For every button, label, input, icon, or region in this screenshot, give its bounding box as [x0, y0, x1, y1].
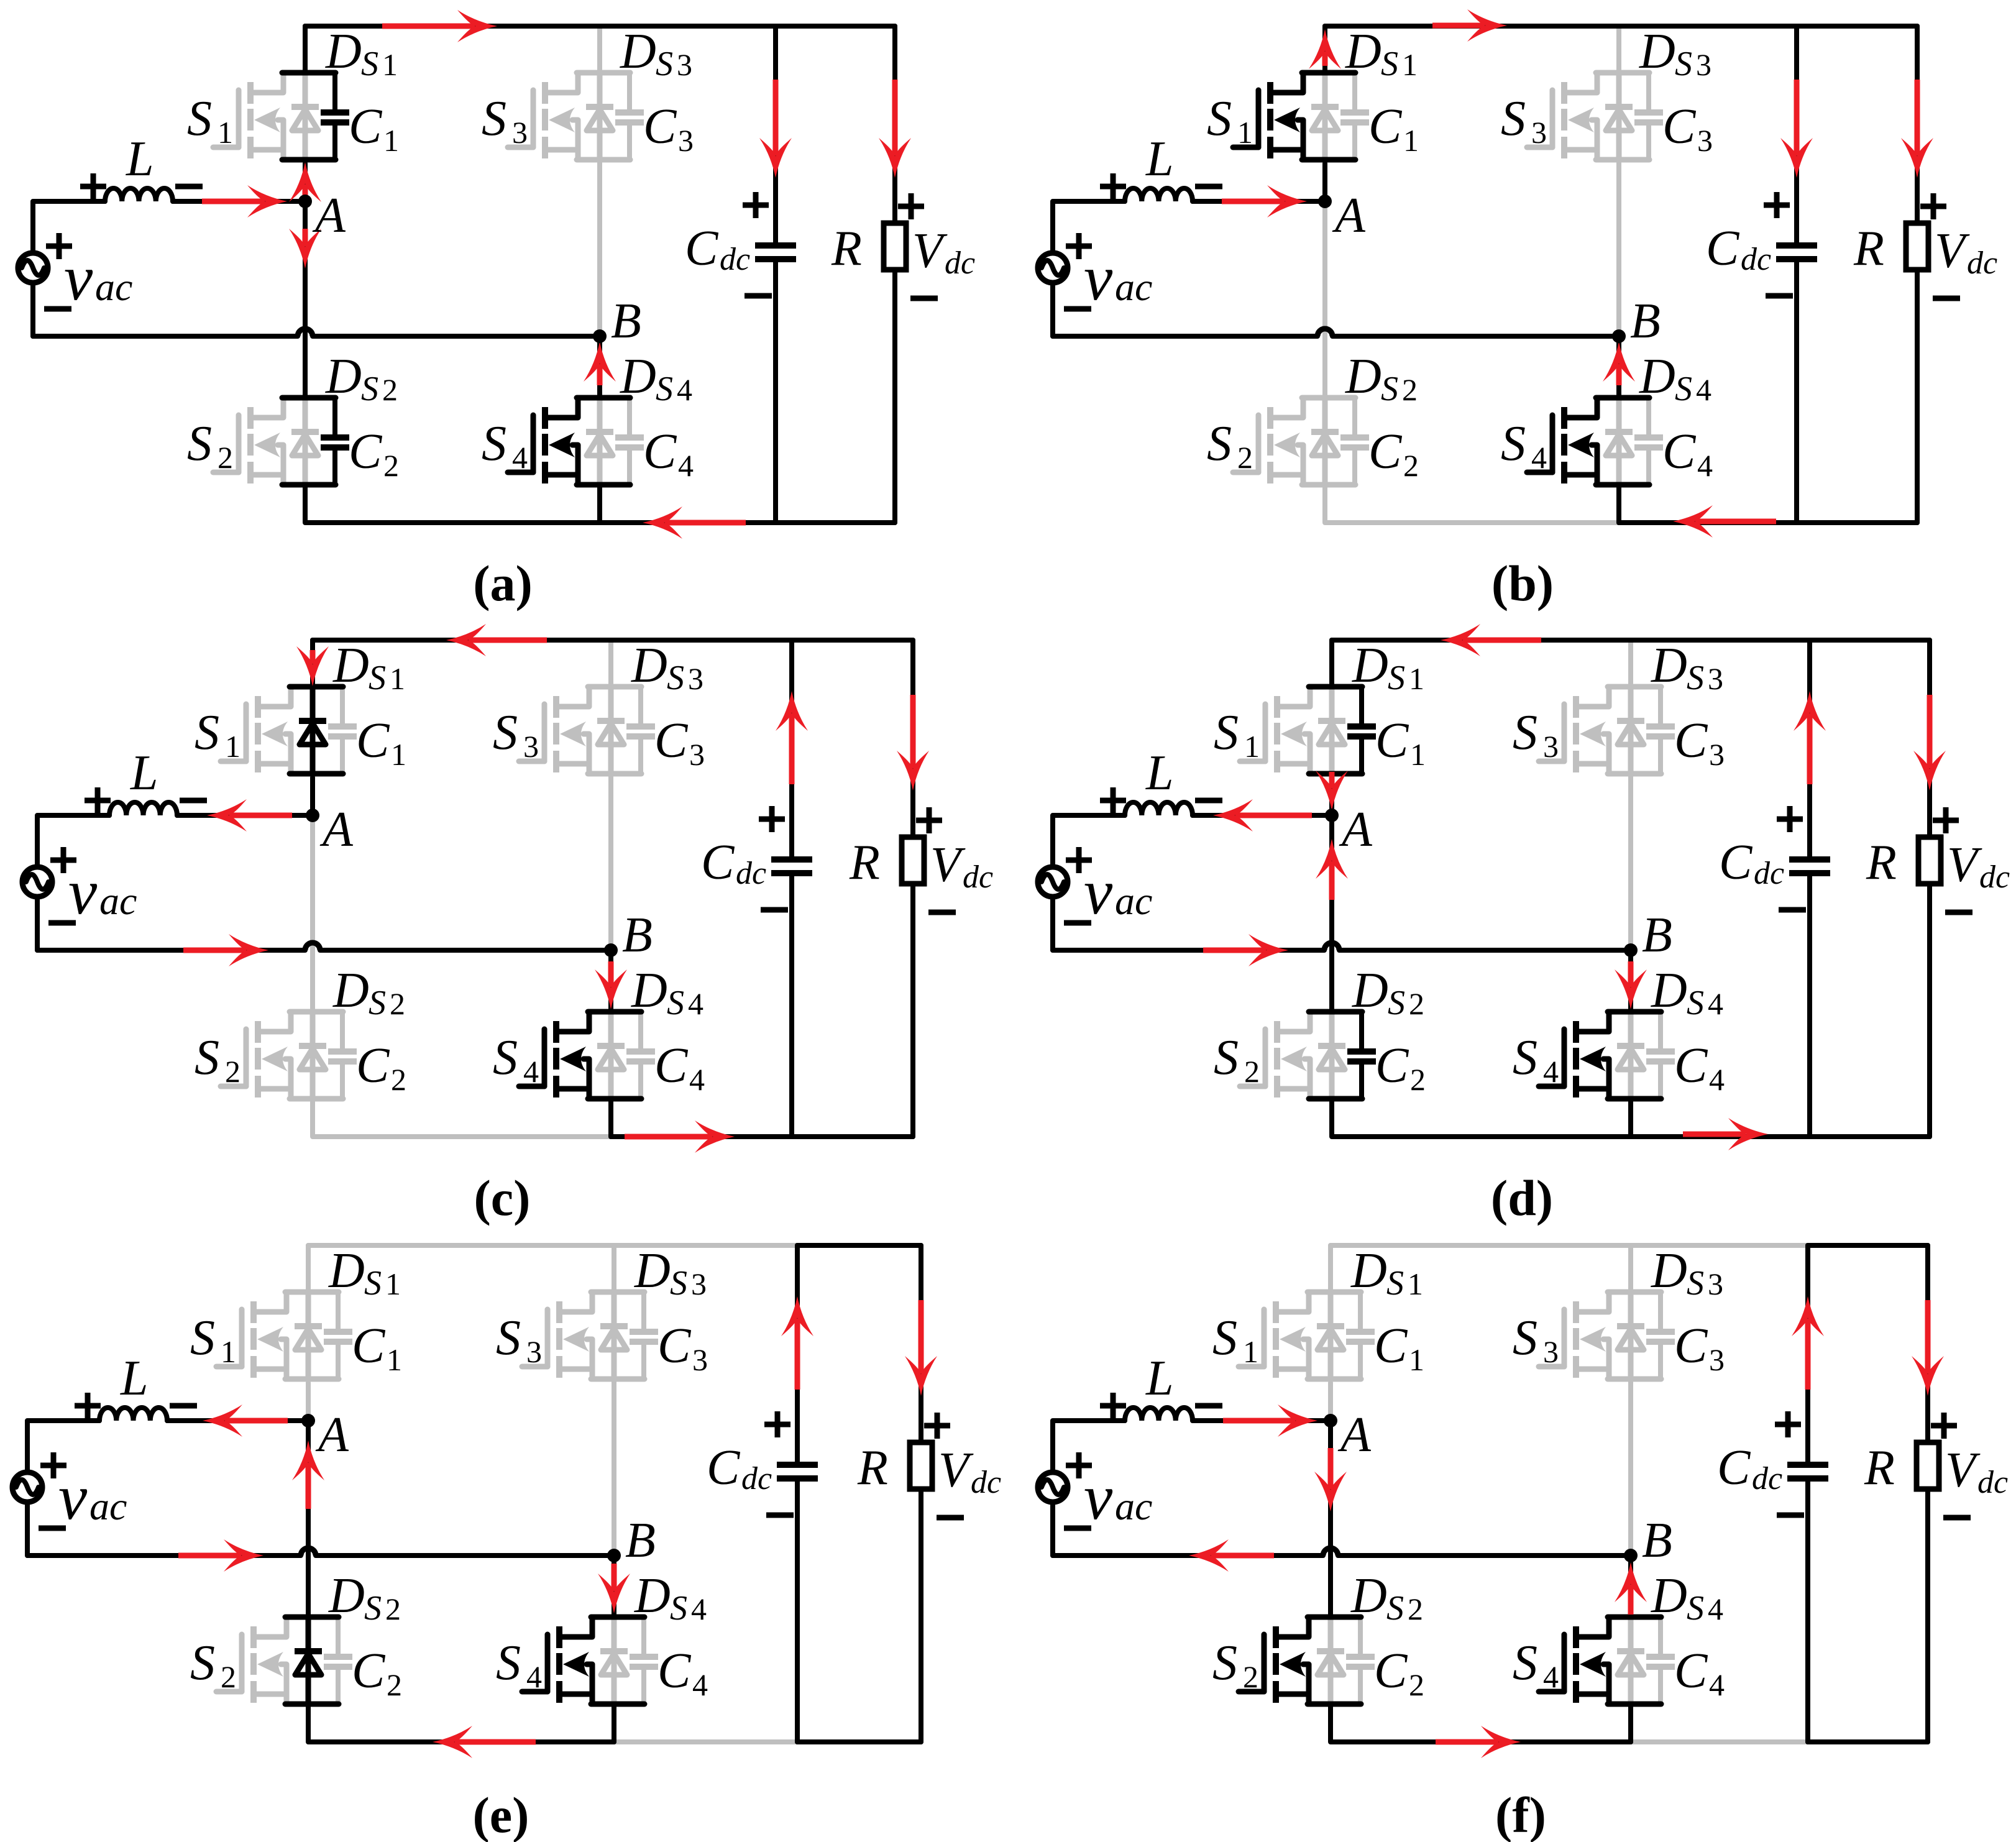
wire (c): bottom rail from S4 to C_dc tap — [611, 1134, 792, 1139]
wire (f): top rail from S1 corner to C_dc tap — [1331, 1245, 1808, 1292]
capacitor C3 (e) — [641, 1292, 646, 1329]
label - at v_ac (f) — [1064, 1526, 1091, 1531]
svg-text:1: 1 — [1243, 1334, 1258, 1369]
svg-text:3: 3 — [1709, 737, 1725, 772]
svg-text:v: v — [1084, 1462, 1113, 1533]
svg-text:S: S — [656, 45, 673, 83]
inductor L (d) — [1125, 802, 1193, 815]
label - at inductor (a) — [175, 184, 203, 190]
wire (b): top rail from C_dc tap to load corner — [1797, 24, 1917, 29]
inductor L (f) — [1125, 1408, 1193, 1421]
transistor S2 (f) top/bottom connection bars — [1308, 1615, 1361, 1620]
ac source v_ac (e) — [12, 1472, 42, 1502]
svg-text:4: 4 — [526, 1659, 542, 1694]
svg-text:4: 4 — [689, 1062, 705, 1097]
svg-text:3: 3 — [689, 737, 705, 772]
svg-text:S: S — [1388, 659, 1405, 697]
svg-text:ac: ac — [89, 1484, 127, 1528]
current arrow (d): through inductor toward source — [1235, 813, 1312, 818]
transistor S3 (b) MOSFET symbol — [1550, 90, 1556, 147]
capacitor C3 (b) — [1646, 73, 1651, 110]
svg-text:S: S — [1386, 1589, 1404, 1628]
svg-text:R: R — [1853, 221, 1884, 276]
svg-text:S: S — [667, 659, 684, 697]
svg-text:1: 1 — [218, 115, 233, 150]
wire (f): source bottom to crossover — [1050, 1502, 1055, 1556]
transistor S3 (c) MOSFET symbol — [542, 704, 548, 761]
transistor S2 (c) MOSFET symbol — [244, 1029, 249, 1086]
svg-text:dc: dc — [1754, 856, 1784, 891]
current arrow (f): up through D_S4 into node B — [1628, 1585, 1634, 1615]
label - at C_dc (b) — [1766, 293, 1793, 299]
current arrow (b): up through D_S4 into node B — [1616, 364, 1622, 385]
label - at v_ac (e) — [39, 1526, 66, 1531]
current arrow (d): down from node B into S4 — [1628, 961, 1634, 987]
svg-text:4: 4 — [692, 1667, 708, 1702]
label - at C_dc (d) — [1779, 907, 1806, 913]
wire (c): node A down to S2 — [310, 815, 315, 1012]
body diode D_S1 (c) — [310, 687, 316, 774]
svg-text:D: D — [1345, 24, 1381, 79]
capacitor C4 (d) — [1658, 1012, 1663, 1049]
svg-text:A: A — [1337, 1408, 1372, 1462]
svg-text:D: D — [1350, 1244, 1387, 1298]
svg-text:1: 1 — [390, 661, 405, 696]
label + at v_ac (e) — [40, 1463, 66, 1469]
capacitor C2 (e) — [336, 1617, 341, 1654]
svg-text:4: 4 — [1543, 1659, 1559, 1694]
capacitor C2 (d) — [1359, 1012, 1364, 1049]
svg-text:R: R — [1866, 835, 1897, 890]
body diode D_S3 (b) — [1616, 73, 1622, 160]
body diode D_S1 (b) — [1322, 73, 1328, 160]
wire (c): S4 source to bottom rail — [608, 1099, 613, 1137]
svg-text:1: 1 — [1402, 47, 1418, 82]
svg-text:D: D — [620, 24, 656, 79]
svg-text:D: D — [631, 963, 667, 1018]
transistor S1 (f) MOSFET symbol — [1262, 1309, 1267, 1367]
svg-text:D: D — [620, 349, 656, 404]
current arrow (f): inductor output, to the right — [1223, 1418, 1295, 1424]
label + at V_dc (c) — [916, 818, 942, 823]
wire (d): source bottom to crossover — [1050, 897, 1055, 950]
label - at v_ac (d) — [1064, 920, 1091, 926]
capacitor C3 (f) — [1658, 1292, 1663, 1329]
transistor S1 (c) MOSFET symbol — [244, 704, 249, 761]
current arrow (a): down into C_dc — [773, 80, 779, 155]
svg-text:1: 1 — [1237, 115, 1253, 150]
svg-text:(e): (e) — [472, 1787, 529, 1842]
svg-text:ac: ac — [1115, 1484, 1152, 1528]
svg-text:S: S — [1675, 45, 1692, 83]
svg-text:dc: dc — [1967, 245, 1997, 281]
wire (b): source bottom to crossover — [1050, 283, 1055, 336]
wire (c): inductor to node A — [177, 813, 313, 818]
svg-text:C: C — [657, 1319, 692, 1373]
inductor L (b) — [1125, 188, 1193, 201]
wire (c): source bottom to crossover — [35, 897, 40, 950]
svg-text:D: D — [325, 349, 362, 404]
wire (e): S3 drain wire (top rail to S3), inactive — [612, 1245, 616, 1292]
svg-text:D: D — [634, 1569, 671, 1623]
wire (e): node B up to S4 drain — [612, 1556, 616, 1617]
wire (e): source bottom to crossover — [25, 1502, 30, 1556]
svg-text:S: S — [493, 1030, 518, 1085]
svg-text:V: V — [1935, 224, 1970, 278]
label + at v_ac (a) — [46, 244, 72, 249]
label - at V_dc (c) — [928, 910, 956, 915]
wire (a): S3 drain wire (top rail to S3), inactive — [597, 26, 602, 73]
svg-text:1: 1 — [1409, 1342, 1424, 1377]
label + at V_dc (f) — [1931, 1423, 1957, 1429]
svg-text:V: V — [938, 1443, 974, 1498]
node B (b) — [1612, 329, 1626, 343]
svg-text:C: C — [643, 424, 677, 479]
svg-text:2: 2 — [1403, 448, 1419, 483]
wire (c): S3 drain wire (top rail to S3), inactive — [608, 640, 613, 687]
body diode D_S1 (a) — [303, 73, 308, 160]
svg-text:S: S — [1212, 1636, 1237, 1690]
transistor S4 (f) top/bottom connection bars — [1608, 1615, 1661, 1620]
svg-text:1: 1 — [385, 1267, 401, 1301]
svg-text:3: 3 — [1543, 729, 1559, 764]
current arrow (c): top rail, to the left — [469, 638, 547, 643]
svg-text:4: 4 — [691, 1592, 707, 1626]
current arrow (b): down through R — [1915, 80, 1920, 155]
wire (f): node A to S1 — [1328, 1383, 1333, 1421]
wire (b): source to inductor — [1053, 201, 1125, 253]
svg-text:3: 3 — [1697, 123, 1713, 158]
label + at V_dc (e) — [924, 1423, 950, 1429]
svg-text:V: V — [1947, 838, 1982, 892]
svg-text:S: S — [1675, 370, 1692, 408]
wire (c): top rail — [313, 638, 792, 643]
svg-text:3: 3 — [692, 1342, 708, 1377]
transistor S4 (f) MOSFET symbol — [1562, 1634, 1567, 1692]
wire (a): source to inductor — [33, 201, 105, 253]
svg-text:4: 4 — [678, 448, 694, 483]
current arrow (d): bottom rail, to the right — [1683, 1132, 1746, 1137]
label + at inductor (f) — [1100, 1403, 1126, 1409]
current arrow (d): up toward node A — [1329, 861, 1335, 900]
wire (a): bottom rail from S4 to C_dc tap — [600, 520, 776, 525]
svg-text:1: 1 — [1410, 737, 1426, 772]
label + at inductor (d) — [1100, 798, 1126, 804]
svg-text:v: v — [58, 1462, 88, 1533]
label + at v_ac (c) — [50, 858, 76, 863]
transistor S3 (d) top/bottom connection bars — [1608, 684, 1661, 690]
label - at V_dc (a) — [910, 296, 938, 301]
wire (f): S1 drain to top rail — [1328, 1245, 1333, 1292]
current arrow (a): down through R — [892, 80, 898, 155]
ac source v_ac (b) — [1038, 253, 1068, 283]
svg-text:D: D — [1345, 349, 1381, 404]
svg-text:2: 2 — [391, 1062, 406, 1097]
capacitor C_dc (b) — [1794, 26, 1799, 243]
svg-text:C: C — [1662, 424, 1697, 479]
wire (e): source to inductor — [27, 1421, 99, 1472]
svg-text:2: 2 — [218, 440, 233, 475]
ac source v_ac (d) — [1038, 867, 1068, 897]
svg-text:D: D — [1651, 1244, 1687, 1298]
wire (f): node A down to S2 — [1328, 1421, 1333, 1617]
body diode D_S1 (e) — [306, 1292, 311, 1379]
wire (f): S3 drain wire (top rail to S3), inactive — [1628, 1245, 1633, 1292]
current arrow (c): down through R — [910, 695, 916, 768]
wire (f): S3 source to node B, inactive — [1628, 1379, 1633, 1556]
svg-text:C: C — [1375, 713, 1409, 768]
wire (b): top rail — [1325, 24, 1797, 29]
current arrow (e): down from node B into S4 — [612, 1564, 617, 1591]
label + at inductor (c) — [85, 798, 111, 804]
body diode D_S2 (f) — [1328, 1617, 1334, 1704]
svg-text:dc: dc — [1752, 1461, 1782, 1496]
body diode D_S2 (a) — [303, 398, 308, 485]
svg-text:3: 3 — [512, 115, 528, 150]
body diode D_S2 (b) — [1322, 398, 1328, 485]
label + at V_dc (d) — [1933, 818, 1959, 823]
wire (e): top rail from C_dc tap to load corner — [797, 1243, 921, 1248]
wire (d): node B up to S4 drain — [1628, 950, 1633, 1012]
svg-text:4: 4 — [1697, 448, 1713, 483]
wire (a): node A down to S2 — [303, 201, 308, 398]
current arrow (b): up through S1 to top rail — [1322, 52, 1328, 66]
svg-text:B: B — [622, 908, 653, 963]
svg-text:dc: dc — [1977, 1465, 2008, 1500]
current arrow (b): top rail, to the right — [1432, 23, 1485, 29]
svg-text:S: S — [187, 416, 212, 471]
wire (e): inductor to node A — [167, 1418, 308, 1423]
capacitor C3 (c) — [638, 687, 643, 724]
transistor S2 (a) top/bottom connection bars — [282, 395, 336, 401]
svg-text:2: 2 — [390, 986, 405, 1021]
svg-text:3: 3 — [523, 729, 539, 764]
node B (c) — [604, 943, 618, 957]
body diode D_S1 (d) — [1329, 687, 1335, 774]
body diode D_S4 (b) — [1616, 398, 1622, 485]
label - at v_ac (b) — [1064, 306, 1091, 312]
label - at V_dc (d) — [1945, 910, 1972, 915]
transistor S4 (d) MOSFET symbol — [1562, 1029, 1567, 1086]
svg-text:C: C — [1674, 713, 1708, 768]
svg-text:S: S — [1687, 659, 1704, 697]
capacitor C1 (c) — [340, 687, 345, 724]
svg-text:D: D — [1352, 638, 1388, 693]
svg-text:C: C — [1375, 1038, 1409, 1093]
crossover hop (d) on source-return wire over phase-leg A — [1324, 943, 1339, 950]
current arrow (e): up toward node A — [306, 1463, 311, 1509]
resistor R / output V_dc branch (c) — [910, 640, 915, 840]
svg-text:S: S — [1513, 1030, 1537, 1085]
wire (d): S1 drain to top rail corner — [1329, 640, 1334, 687]
svg-text:D: D — [1651, 963, 1687, 1018]
svg-text:C: C — [657, 1644, 692, 1698]
svg-text:dc: dc — [1741, 242, 1771, 277]
svg-text:1: 1 — [383, 123, 399, 158]
inductor L (e) — [99, 1408, 167, 1421]
label + at C_dc (d) — [1777, 817, 1803, 822]
svg-text:2: 2 — [1409, 1667, 1424, 1702]
svg-text:L: L — [1145, 132, 1174, 186]
current arrow (b): down into C_dc — [1794, 80, 1800, 155]
transistor S1 (e) top/bottom connection bars — [285, 1290, 339, 1295]
svg-text:C: C — [352, 1644, 386, 1698]
svg-text:B: B — [625, 1513, 656, 1568]
svg-text:3: 3 — [526, 1334, 542, 1369]
capacitor C3 (d) — [1658, 687, 1663, 724]
wire (a): bottom rail from C_dc tap to load — [776, 520, 895, 525]
body diode D_S2 (d) — [1329, 1012, 1335, 1099]
svg-text:S: S — [361, 370, 378, 408]
svg-text:v: v — [1084, 242, 1113, 314]
wire (b): bottom rail from C_dc tap to load — [1797, 520, 1917, 525]
svg-text:(b): (b) — [1491, 555, 1554, 612]
svg-text:S: S — [1381, 45, 1398, 83]
svg-text:dc: dc — [741, 1461, 772, 1496]
transistor S3 (b) top/bottom connection bars — [1596, 70, 1649, 76]
resistor R / output V_dc branch (b) — [1915, 26, 1920, 226]
wire (d): S3 source to node B, inactive — [1628, 774, 1633, 950]
svg-text:D: D — [1639, 24, 1675, 79]
svg-text:ac: ac — [1115, 879, 1152, 923]
wire (b): node B up to S4 drain — [1616, 336, 1621, 398]
transistor S1 (c) top/bottom connection bars — [290, 684, 343, 690]
node A (d) — [1325, 809, 1339, 822]
label - at v_ac (c) — [48, 920, 76, 926]
svg-text:(c): (c) — [474, 1170, 530, 1226]
svg-text:A: A — [1339, 802, 1373, 857]
wire (a): inductor to node A — [173, 199, 305, 204]
node A (c) — [306, 809, 319, 822]
node B (a) — [593, 329, 607, 343]
crossover hop (c) on source-return wire over phase-leg A — [305, 943, 320, 950]
svg-text:S: S — [364, 1589, 382, 1628]
wire (d): bottom rail from S4 to C_dc tap — [1631, 1134, 1810, 1139]
current arrow (f): down from node A toward S2 — [1328, 1448, 1334, 1489]
svg-text:D: D — [1352, 963, 1388, 1018]
wire (d): S4 source to bottom rail — [1628, 1099, 1633, 1137]
current arrow (d): down through R — [1927, 695, 1933, 768]
svg-text:S: S — [361, 45, 378, 83]
crossover hop (b) on source-return wire over phase-leg A — [1317, 329, 1332, 336]
svg-text:D: D — [332, 638, 369, 693]
current arrow (e): through inductor toward source — [225, 1418, 288, 1424]
svg-text:C: C — [356, 713, 390, 768]
current arrow (d): up out of C_dc — [1807, 713, 1813, 784]
svg-text:2: 2 — [1237, 440, 1253, 475]
current arrow (c): up out of C_dc — [789, 713, 795, 784]
wire (e): bottom rail from C_dc tap to load — [797, 1739, 921, 1744]
svg-text:C: C — [1706, 221, 1740, 276]
svg-text:3: 3 — [691, 1267, 707, 1301]
capacitor C2 (f) — [1358, 1617, 1363, 1654]
capacitor C_dc (e) — [795, 1245, 800, 1462]
transistor S3 (a) MOSFET symbol — [531, 90, 536, 147]
svg-text:C: C — [1674, 1038, 1708, 1093]
svg-text:V: V — [912, 224, 948, 278]
svg-text:R: R — [857, 1441, 888, 1495]
label + at inductor (e) — [75, 1403, 101, 1409]
svg-text:D: D — [634, 1244, 671, 1298]
svg-text:C: C — [685, 221, 719, 276]
transistor S3 (e) MOSFET symbol — [545, 1309, 551, 1367]
body diode D_S3 (d) — [1628, 687, 1634, 774]
svg-text:S: S — [482, 416, 506, 471]
wire (b): node A up to S1 — [1322, 163, 1327, 201]
wire (f): S2 source to bottom rail and across to S4 — [1331, 1704, 1631, 1742]
svg-text:C: C — [654, 713, 689, 768]
svg-text:S: S — [1513, 1636, 1537, 1690]
capacitor C3 (a) — [627, 73, 632, 110]
ac source v_ac (a) — [18, 253, 48, 283]
current arrow (e): up out of C_dc — [795, 1319, 800, 1390]
label + at inductor (a) — [80, 184, 106, 190]
current arrow (b): inductor output, to the right — [1222, 199, 1285, 204]
svg-text:1: 1 — [221, 1334, 236, 1369]
resistor R / output V_dc branch (f) — [1925, 1245, 1930, 1445]
transistor S1 (d) MOSFET symbol — [1263, 704, 1268, 761]
wire (f): crossover to node B — [1338, 1553, 1631, 1558]
transistor S2 (b) MOSFET symbol — [1256, 415, 1262, 472]
label + at v_ac (d) — [1066, 858, 1092, 863]
svg-text:2: 2 — [1410, 1062, 1426, 1097]
svg-text:D: D — [325, 24, 362, 79]
wire (a): S3 source to node B, inactive — [597, 160, 602, 336]
transistor S2 (c) top/bottom connection bars — [290, 1009, 343, 1015]
svg-text:S: S — [1214, 705, 1239, 760]
wire (d): top rail from C_dc tap to load corner — [1810, 638, 1930, 643]
svg-text:A: A — [312, 188, 346, 243]
svg-text:ac: ac — [95, 265, 132, 309]
capacitor C4 (b) — [1646, 398, 1651, 435]
svg-text:4: 4 — [512, 440, 528, 475]
wire (c): S1 drain to top rail corner — [310, 640, 315, 687]
svg-text:C: C — [701, 835, 735, 890]
wire (e): node A to S1 — [306, 1383, 311, 1421]
svg-text:(a): (a) — [473, 555, 533, 612]
capacitor C4 (a) — [627, 398, 632, 435]
svg-text:S: S — [667, 984, 684, 1022]
svg-text:D: D — [332, 963, 369, 1018]
svg-text:S: S — [482, 91, 506, 146]
label + at C_dc (b) — [1764, 203, 1790, 208]
transistor S4 (e) top/bottom connection bars — [591, 1615, 644, 1620]
svg-text:S: S — [1513, 1311, 1537, 1365]
wire (c): S2 source to bottom rail and across to S4 — [313, 1099, 611, 1137]
body diode D_S3 (c) — [608, 687, 614, 774]
capacitor C_dc (f) — [1805, 1245, 1810, 1462]
svg-text:3: 3 — [677, 47, 692, 82]
svg-text:L: L — [1145, 1351, 1174, 1406]
transistor S3 (c) top/bottom connection bars — [588, 684, 641, 690]
svg-text:S: S — [496, 1311, 521, 1365]
wire (f): node B up to S4 drain — [1628, 1556, 1633, 1617]
inductor L (c) — [109, 802, 177, 815]
transistor S1 (f) top/bottom connection bars — [1308, 1290, 1361, 1295]
capacitor C1 (d) — [1359, 687, 1364, 724]
transistor S1 (a) MOSFET symbol — [236, 90, 242, 147]
svg-text:C: C — [1374, 1319, 1408, 1373]
svg-text:S: S — [1687, 1264, 1704, 1303]
transistor S2 (e) top/bottom connection bars — [285, 1615, 339, 1620]
wire (b): bottom rail from S4 to C_dc tap — [1619, 520, 1797, 525]
body diode D_S3 (f) — [1628, 1292, 1634, 1379]
svg-text:C: C — [1674, 1644, 1708, 1698]
current arrow (a): bottom rail, to the left — [665, 520, 746, 526]
wire (c): S3 source to node B, inactive — [608, 774, 613, 950]
svg-text:D: D — [1350, 1569, 1387, 1623]
capacitor C4 (e) — [641, 1617, 646, 1654]
